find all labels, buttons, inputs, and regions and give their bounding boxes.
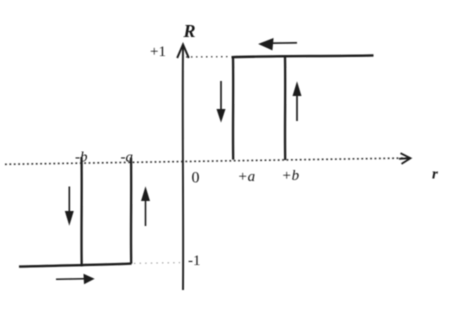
left-pointing arrow above +1 line bbox=[260, 39, 298, 50]
svg-text:+1: +1 bbox=[150, 44, 166, 60]
down arrow left of +a bbox=[217, 81, 225, 121]
vertical axis arrowhead bbox=[177, 45, 189, 59]
horizontal axis r (dotted) bbox=[5, 158, 409, 164]
vertical line at +b bbox=[284, 57, 287, 160]
svg-text:+a: +a bbox=[238, 169, 256, 185]
vertical axis R bbox=[182, 47, 184, 290]
svg-text:r: r bbox=[432, 167, 438, 183]
up arrow right of -a bbox=[142, 188, 150, 226]
dotted guide at -1 level bbox=[134, 262, 180, 265]
vertical line at -a bbox=[130, 158, 132, 264]
bottom line at -1 bbox=[19, 264, 132, 267]
svg-text:R: R bbox=[183, 21, 196, 41]
top line at +1 bbox=[232, 55, 374, 57]
svg-text:+b: +b bbox=[282, 168, 300, 184]
up arrow right of +b bbox=[293, 83, 301, 121]
right-pointing arrow under -1 line bbox=[56, 275, 94, 284]
vertical line at -b bbox=[80, 157, 82, 266]
svg-text:-1: -1 bbox=[188, 253, 201, 269]
vertical line at +a bbox=[232, 57, 234, 159]
dotted guide at +1 level bbox=[186, 56, 231, 58]
svg-text:0: 0 bbox=[192, 170, 200, 187]
horizontal axis arrowhead bbox=[399, 153, 411, 164]
down arrow left of -b bbox=[66, 187, 74, 225]
